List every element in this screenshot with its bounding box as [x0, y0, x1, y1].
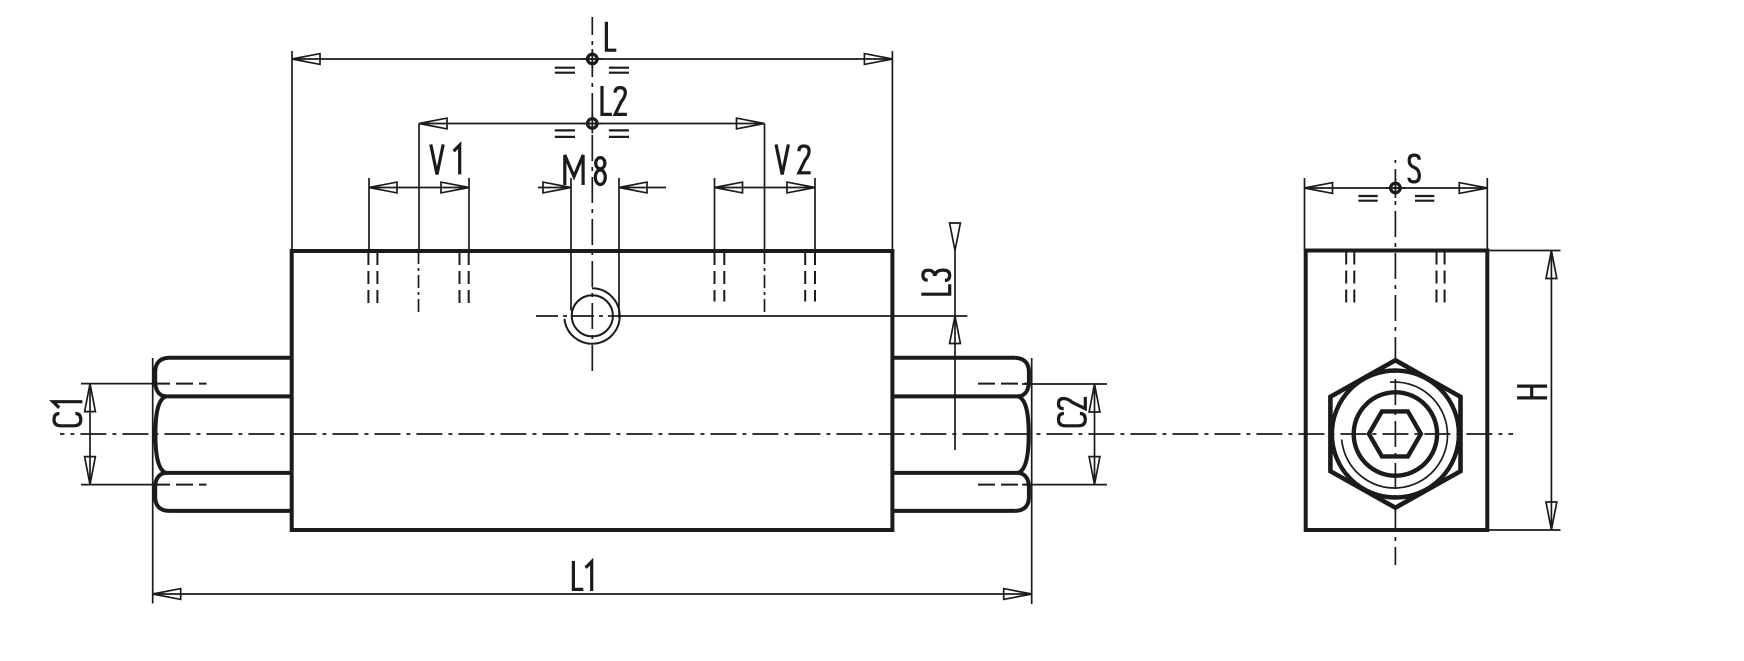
valve body front view — [292, 251, 893, 530]
dimension L1 arrows — [153, 589, 1032, 600]
dimension H text — [1517, 386, 1547, 398]
dimension L symmetry marks — [555, 68, 629, 73]
side view port hidden lines — [1346, 252, 1444, 305]
dimension V2 line — [715, 187, 816, 189]
dimension L3 arrows — [950, 223, 961, 344]
right hex end face line — [1031, 358, 1033, 604]
dimension L2 text — [602, 86, 627, 114]
dimension M8 extension lines — [571, 178, 619, 318]
left hex thread dashed lines — [153, 384, 207, 485]
dimension S centre donut — [1385, 178, 1405, 198]
dimension L extension lines — [292, 51, 892, 250]
dimension S symmetry marks — [1358, 196, 1434, 201]
dimension S arrows — [1305, 183, 1488, 194]
dimension C2 arrows — [1089, 384, 1100, 485]
dimension L centre donut — [582, 49, 602, 69]
V1 port centerline — [418, 251, 420, 314]
dimension H line — [1550, 251, 1552, 531]
dimension V1 arrows — [369, 182, 469, 193]
dimension V1 line — [369, 187, 469, 189]
M8 thread outer arc — [564, 288, 619, 343]
side view vertical centerline — [1394, 160, 1396, 565]
dimension V2 extension lines — [715, 178, 816, 251]
right hex fitting outline — [892, 358, 1029, 511]
dimension L3 line — [954, 251, 956, 451]
dimension H arrows — [1546, 251, 1557, 531]
dimension C2 text — [1059, 397, 1086, 426]
side view thin chamfer arc — [1342, 382, 1448, 488]
dimension V1 extension lines — [369, 178, 469, 251]
dimension S extension lines — [1305, 178, 1488, 250]
dimension S line — [1305, 187, 1488, 189]
dimension V1 text — [431, 144, 460, 174]
dimension M8 lines — [538, 187, 666, 189]
dimension L arrows — [292, 54, 892, 65]
dimension V2 arrows — [715, 182, 816, 193]
dimension L2 centre donut — [582, 114, 602, 134]
dimension L2 line — [419, 123, 765, 125]
V2 port centerline — [764, 251, 766, 312]
dimension C1 text — [53, 402, 82, 426]
V1 port hidden thread lines — [368, 252, 468, 304]
dimension L1 line — [153, 593, 1032, 595]
dimension C1 extension lines — [81, 384, 154, 485]
dimension M8 arrows — [543, 182, 647, 193]
dimension L3 text — [921, 270, 949, 294]
side view socket hex — [1369, 411, 1421, 456]
dimension C1 arrows — [85, 384, 96, 485]
side view chamfer circle — [1332, 371, 1459, 498]
dimension C2 extension lines — [1022, 384, 1107, 485]
right hex thread dashed lines — [978, 384, 1029, 485]
dimension L text — [606, 22, 616, 50]
dimension V2 text — [776, 144, 811, 174]
M8 hole horizontal centerline — [536, 315, 622, 317]
dimension C2 line — [1094, 384, 1096, 485]
left hex end face line — [152, 358, 154, 604]
main horizontal centerline — [60, 433, 1513, 435]
side view hex nut outline — [1330, 360, 1460, 507]
dimension M8 text — [565, 155, 606, 185]
M8 vertical centerline — [591, 17, 593, 374]
dimension L2 symmetry marks — [555, 130, 629, 137]
dimension L line — [292, 58, 892, 60]
V2 port hidden thread lines — [715, 252, 816, 302]
dimension L3 extension line — [620, 315, 967, 317]
dimension L2 extension lines — [419, 124, 765, 251]
dimension L1 text — [573, 561, 591, 591]
left hex fitting outline — [155, 358, 292, 511]
dimension S text — [1409, 155, 1419, 182]
dimension L2 arrows — [419, 118, 765, 129]
side view block — [1306, 251, 1488, 531]
side view washer circle — [1354, 392, 1437, 475]
dimension H extension lines — [1487, 251, 1560, 531]
dimension C1 line — [89, 384, 91, 485]
M8 threaded hole circle — [572, 295, 613, 336]
